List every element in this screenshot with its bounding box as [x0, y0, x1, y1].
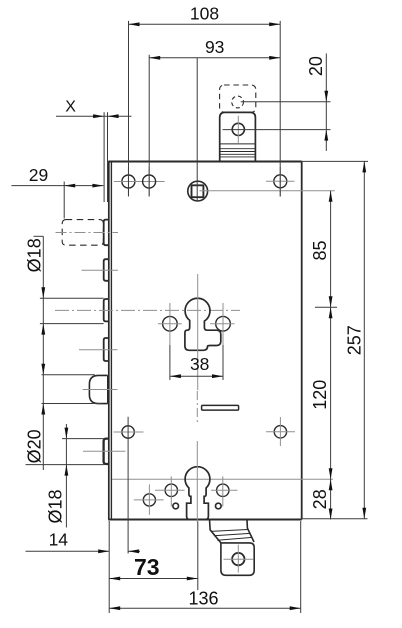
svg-text:Ø18: Ø18	[25, 238, 45, 272]
svg-text:X: X	[65, 99, 76, 116]
svg-text:14: 14	[49, 530, 69, 550]
svg-text:73: 73	[134, 554, 160, 580]
svg-text:38: 38	[190, 354, 209, 374]
svg-text:93: 93	[205, 37, 224, 57]
svg-text:108: 108	[190, 4, 219, 24]
svg-text:Ø20: Ø20	[25, 429, 45, 463]
svg-text:257: 257	[344, 325, 364, 355]
svg-text:20: 20	[306, 56, 326, 76]
svg-text:28: 28	[310, 489, 330, 509]
svg-text:Ø18: Ø18	[46, 489, 66, 523]
svg-text:85: 85	[310, 240, 330, 260]
svg-text:29: 29	[29, 165, 48, 185]
svg-text:120: 120	[310, 380, 330, 410]
svg-text:136: 136	[188, 588, 218, 608]
